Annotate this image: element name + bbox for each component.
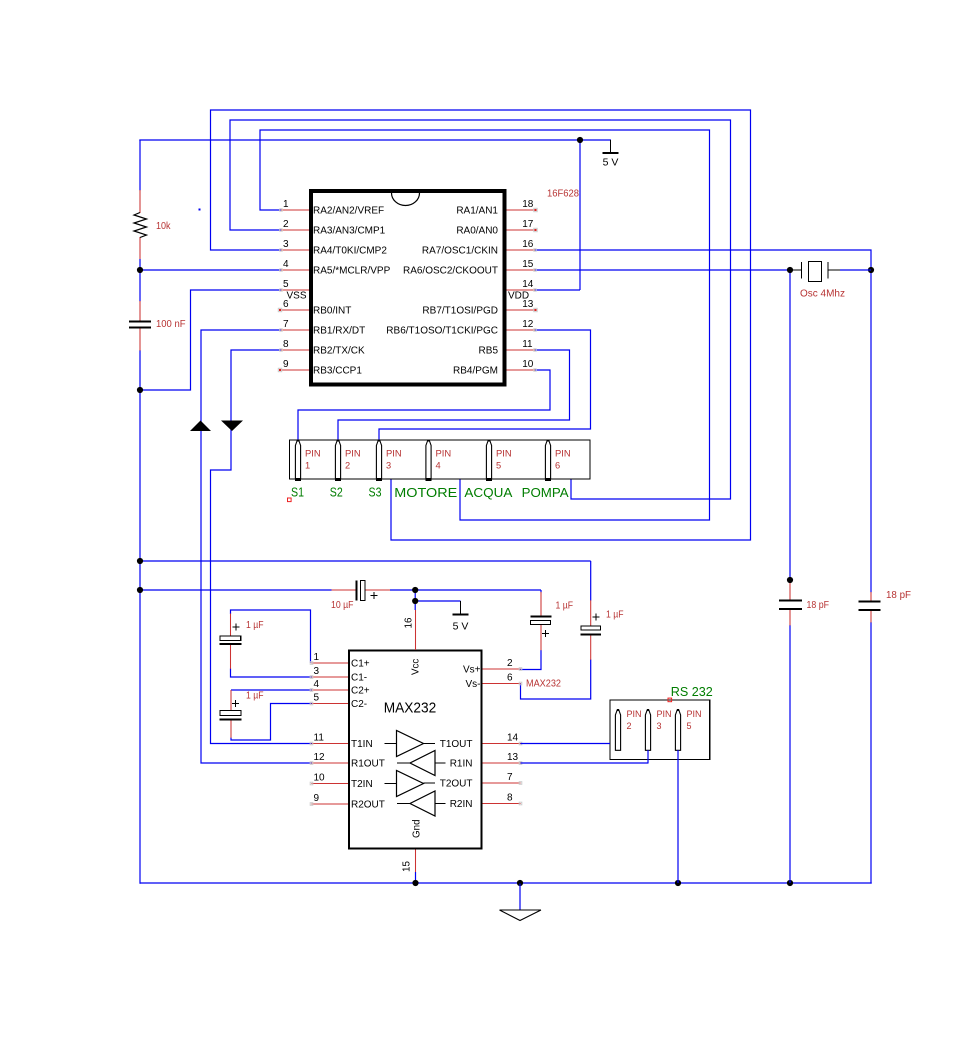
- svg-text:PIN: PIN: [436, 449, 452, 459]
- svg-text:T2IN: T2IN: [351, 779, 373, 790]
- wire net S3: PIC pin12 RB6 to connector pin3: [379, 330, 591, 441]
- svg-text:PIN: PIN: [386, 449, 402, 459]
- svg-text:RA4/T0KI/CMP2: RA4/T0KI/CMP2: [313, 246, 387, 257]
- svg-text:1: 1: [314, 652, 320, 663]
- U1 pin name RB7/T1OSI/PGD: [422, 306, 498, 317]
- U1 stub connection markers: [280, 209, 536, 371]
- U1 pin number 13: [522, 299, 534, 310]
- value label 1 uF (C8): [606, 610, 624, 621]
- svg-text:1: 1: [283, 199, 289, 210]
- U2 pin 8 stub: [483, 803, 521, 805]
- U2 pin name C2+: [351, 686, 370, 697]
- value label 1 uF (C7): [556, 601, 574, 612]
- wire net GND bottom rail: [140, 882, 872, 884]
- U2 pin number 5: [314, 693, 320, 704]
- svg-text:RB0/INT: RB0/INT: [313, 306, 351, 317]
- U2 pin name Vcc: [411, 659, 422, 675]
- wire net GND: branch y=561 to C8: [139, 561, 590, 601]
- junction GND rail at (790,883): [787, 880, 793, 886]
- svg-text:1 µF: 1 µF: [246, 691, 264, 702]
- U1 pin number 14: [522, 279, 534, 290]
- J2 pin 3 symbol: [645, 709, 650, 750]
- U2 pin 5 stub: [312, 703, 349, 705]
- svg-text:10 µF: 10 µF: [331, 600, 354, 611]
- wire net C1-: C5 bottom to MAX232 pin3: [231, 669, 312, 678]
- svg-text:PIN: PIN: [555, 449, 571, 459]
- wire net RX: PIC pin7 RB1/RX to MAX232 pin12 R1OUT: [201, 330, 312, 763]
- value label 18 pF (C2): [807, 600, 830, 611]
- J1 pin 3 symbol: [376, 440, 382, 480]
- U2 pin 7 stub: [483, 782, 521, 784]
- wire net C1+: MAX232 pin1 to C5 top: [231, 610, 311, 663]
- U1 pin number 2: [283, 219, 289, 230]
- U2 pin number 12: [314, 752, 326, 763]
- svg-text:14: 14: [522, 279, 534, 290]
- connector J1 box: [290, 440, 591, 479]
- wire net RA4-MOTORE (PIC pin3 to connector): [211, 110, 751, 540]
- U2 pin 16 Vcc stub: [415, 610, 417, 650]
- U2 pin name C1-: [351, 673, 367, 684]
- wire net RA2-ACQUA (PIC pin1 to connector): [260, 130, 710, 520]
- value label 10k: [156, 221, 171, 232]
- value label 1 uF (C5): [246, 620, 264, 631]
- U2 pin 6 stub: [483, 683, 521, 685]
- J1 pin 4 label: [436, 449, 452, 471]
- U2 pin number 4: [314, 679, 320, 690]
- junction OSC1 at (871,270): [868, 267, 874, 273]
- svg-text:6: 6: [507, 673, 513, 684]
- U1 pin 11 stub: [507, 349, 536, 351]
- stray blue dot: [199, 209, 201, 211]
- U1 pin 14 stub: [507, 289, 536, 291]
- C5 plus sign: [233, 624, 240, 631]
- wire net T1OUT: MAX232 pin14 to RS232 pin2: [521, 743, 611, 745]
- svg-text:1 µF: 1 µF: [606, 610, 624, 621]
- U2 pin 11 stub: [312, 743, 349, 745]
- wire net S1: PIC pin10 RB4 to connector pin1: [298, 370, 550, 441]
- capacitor C1 100nF: [129, 301, 151, 351]
- U1 pin name RA6/OSC2/CKOOUT: [403, 266, 498, 277]
- wire net C2+: MAX232 pin4 to C6 top: [231, 689, 312, 691]
- U1 pin number 3: [283, 239, 289, 250]
- U1 pin 13 stub: [507, 309, 536, 311]
- svg-text:5 V: 5 V: [603, 157, 619, 169]
- svg-text:RS 232: RS 232: [671, 685, 713, 699]
- svg-text:17: 17: [522, 219, 534, 230]
- wire 5V top rail y=140 with VDD branch: [139, 139, 611, 290]
- U1 pin name RB2/TX/CK: [313, 346, 365, 357]
- wire net GND: branch y=590 to C4 10uF: [139, 589, 331, 591]
- svg-text:10k: 10k: [156, 221, 171, 232]
- svg-text:12: 12: [522, 319, 534, 330]
- C7 plus sign: [542, 630, 549, 637]
- svg-text:15: 15: [522, 259, 534, 270]
- svg-text:8: 8: [283, 339, 289, 350]
- U1 pin name VDD: [508, 291, 529, 302]
- U1 pin 3 stub: [281, 249, 309, 251]
- U1 pin number 11: [522, 339, 533, 350]
- J2 pin 2 symbol: [615, 709, 620, 750]
- svg-text:RB4/PGM: RB4/PGM: [453, 366, 498, 377]
- wire net C2-: C6 bottom to MAX232 pin5: [231, 704, 312, 741]
- junction VCC at (415,601): [412, 598, 418, 604]
- U1 pin number 6: [283, 299, 289, 310]
- junction GND at (140,561): [137, 558, 143, 564]
- capacitor C4 10uF: [332, 581, 391, 601]
- svg-text:5: 5: [283, 279, 289, 290]
- U1 pin 7 stub: [281, 329, 309, 331]
- svg-text:7: 7: [283, 319, 289, 330]
- net label ACQUA: [464, 486, 513, 500]
- U2 pin name T1OUT: [440, 739, 473, 750]
- svg-text:RA1/AN1: RA1/AN1: [456, 206, 498, 217]
- U1 pin number 10: [522, 359, 534, 370]
- svg-text:9: 9: [314, 793, 320, 804]
- U1 pin number 15: [522, 259, 534, 270]
- svg-text:POMPA: POMPA: [522, 486, 570, 500]
- U2 pin name T2IN: [351, 779, 373, 790]
- svg-text:C1-: C1-: [351, 673, 367, 684]
- wire net VCC: C4 to 5V symbol and MAX232 Vcc pin16: [390, 590, 541, 610]
- svg-text:MAX232: MAX232: [526, 679, 561, 690]
- U1 pin name VSS: [286, 291, 306, 302]
- junction VCC at (415,590): [412, 587, 418, 593]
- svg-text:2: 2: [507, 658, 513, 669]
- svg-text:Osc 4Mhz: Osc 4Mhz: [800, 289, 845, 300]
- svg-text:RA5/*MCLR/VPP: RA5/*MCLR/VPP: [313, 266, 391, 277]
- U1 pin name RB4/PGM: [453, 366, 498, 377]
- U2 pin number 11: [314, 733, 325, 744]
- arrow symbol down (on TX wire): [221, 421, 243, 432]
- U1 pin name RA4/T0KI/CMP2: [313, 246, 387, 257]
- capacitor C8 1uF: [581, 600, 602, 660]
- arrow symbol up (on RX wire): [190, 421, 211, 432]
- svg-text:16F628: 16F628: [547, 189, 579, 200]
- U1 pin 12 stub: [507, 329, 536, 331]
- U1 pin number 16: [522, 239, 534, 250]
- svg-text:PIN: PIN: [657, 709, 672, 719]
- svg-text:18 pF: 18 pF: [886, 590, 911, 601]
- U1 pin name RB6/T1OSO/T1CKI/PGC: [386, 326, 498, 337]
- U1 pin number 17: [522, 219, 534, 230]
- U1 pin 9 stub: [281, 369, 309, 371]
- U2 pin number 1: [314, 652, 320, 663]
- U2 pin number 6: [507, 673, 513, 684]
- capacitor C3 18pF: [859, 592, 881, 623]
- svg-text:1 µF: 1 µF: [556, 601, 574, 612]
- svg-text:RA3/AN3/CMP1: RA3/AN3/CMP1: [313, 226, 386, 237]
- U2 pin 12 stub: [312, 762, 349, 764]
- capacitor C5 1uF: [220, 614, 242, 669]
- U2 pin 15 Gnd stub: [415, 850, 417, 873]
- svg-text:8: 8: [507, 793, 513, 804]
- svg-text:6: 6: [555, 461, 560, 471]
- U2 pin name Gnd: [412, 819, 423, 838]
- net label POMPA: [522, 486, 570, 500]
- U1 pin number 18: [522, 199, 534, 210]
- U2 pin 1 stub: [312, 662, 349, 664]
- U1 pin name RA7/OSC1/CKIN: [422, 246, 498, 257]
- wire net GND: C2 18pF bottom to rail: [789, 625, 791, 883]
- wire net OSC2: PIC pin15 to crystal left node: [535, 270, 790, 580]
- svg-text:9: 9: [283, 359, 289, 370]
- U1 pin 1 stub: [281, 209, 309, 211]
- svg-text:Gnd: Gnd: [412, 819, 423, 838]
- svg-text:5: 5: [687, 721, 692, 731]
- U2 pin name R1IN: [450, 759, 473, 770]
- svg-text:2: 2: [627, 721, 632, 731]
- U1 pin name RA1/AN1: [456, 206, 498, 217]
- wire net TX: PIC pin8 RB2/TX to MAX232 pin11 T1IN: [211, 350, 312, 744]
- U1 pin 17 stub: [507, 229, 536, 231]
- wire net MCLR: resistor/cap junction to RA5 pin4: [140, 259, 281, 302]
- U2 title MAX232: [384, 700, 437, 717]
- IC U2 MAX232 body: [349, 651, 482, 849]
- U1 pin 5 stub: [281, 289, 309, 291]
- U2 pin name R1OUT: [351, 759, 385, 770]
- capacitor C2 18pF: [779, 583, 802, 626]
- capacitor C6 1uF: [220, 690, 242, 738]
- label 5 V (MAX232): [453, 621, 469, 633]
- J1 pin 5 label: [496, 449, 512, 471]
- svg-text:3: 3: [386, 461, 391, 471]
- svg-text:RB2/TX/CK: RB2/TX/CK: [313, 346, 365, 357]
- junction 5V rail at (580,140): [577, 137, 583, 143]
- svg-text:S1: S1: [291, 486, 304, 500]
- U1 pin 8 stub: [281, 349, 309, 351]
- ground symbol: [500, 884, 542, 921]
- U2 pin 10 stub: [312, 783, 349, 785]
- svg-text:5: 5: [314, 693, 320, 704]
- U1 pin name RA2/AN2/VREF: [313, 206, 384, 217]
- svg-text:T2OUT: T2OUT: [440, 779, 473, 790]
- U2 pin number 16: [404, 617, 415, 628]
- svg-text:Vcc: Vcc: [411, 659, 422, 675]
- svg-text:T1IN: T1IN: [351, 739, 373, 750]
- U2 buffer R1: [397, 751, 446, 776]
- U1 pin name RB1/RX/DT: [313, 326, 365, 337]
- junction GND rail at (520,883): [517, 880, 523, 886]
- svg-text:MOTORE: MOTORE: [394, 486, 457, 500]
- svg-text:18 pF: 18 pF: [807, 600, 830, 611]
- J2 pin 2 label: [627, 709, 642, 731]
- U1 pin name RB3/CCP1: [313, 366, 362, 377]
- junction GND rail at (415,883): [412, 880, 418, 886]
- svg-text:RB6/T1OSO/T1CKI/PGC: RB6/T1OSO/T1CKI/PGC: [386, 326, 498, 337]
- svg-text:11: 11: [314, 733, 325, 744]
- svg-text:2: 2: [345, 461, 350, 471]
- svg-text:ACQUA: ACQUA: [464, 486, 513, 500]
- C8 plus sign: [593, 614, 600, 621]
- svg-text:T1OUT: T1OUT: [440, 739, 473, 750]
- U2 pin name Vs+: [463, 665, 481, 676]
- junction GND rail at (679,883): [675, 880, 681, 886]
- U2 pin 3 stub: [312, 676, 349, 678]
- U1 pin 2 stub: [281, 229, 309, 231]
- junction GND at (140,390): [137, 387, 143, 393]
- U2 pin number 2: [507, 658, 513, 669]
- U1 pin 16 stub: [507, 249, 536, 251]
- U2 pin 14 stub: [483, 743, 521, 745]
- U1 pin name RA0/AN0: [456, 226, 498, 237]
- U2 pin 9 stub: [312, 803, 349, 805]
- svg-text:12: 12: [314, 752, 326, 763]
- U2 pin number 8: [507, 793, 513, 804]
- connector J2 RS232 box: [610, 700, 710, 760]
- J1 pin 5 symbol: [486, 440, 492, 480]
- U2 buffer T1: [385, 731, 436, 757]
- junction OSC2/C2 at (790,580): [787, 577, 793, 583]
- wire net GND: left rail x=140 and VSS branch: [140, 290, 281, 884]
- svg-text:S3: S3: [369, 486, 382, 500]
- U1 pin 15 stub: [507, 269, 536, 271]
- wire net OSC1: PIC pin16 to crystal right node: [535, 250, 871, 593]
- value label 18 pF (C3): [886, 590, 911, 601]
- U1 pin number 7: [283, 319, 289, 330]
- U1 pin name RA3/AN3/CMP1: [313, 226, 386, 237]
- svg-text:C2-: C2-: [351, 699, 367, 710]
- J1 pin 2 symbol: [335, 440, 341, 480]
- J1 pin 6 symbol: [545, 440, 551, 480]
- power symbol 5V (MAX232): [453, 601, 469, 615]
- IC U1 PIC 16F628 body: [311, 191, 505, 385]
- U1 pin 4 stub: [281, 269, 309, 271]
- value label 1 uF (C6): [246, 691, 264, 702]
- svg-text:100 nF: 100 nF: [156, 319, 186, 330]
- net label S3: [369, 486, 382, 500]
- U2 pin 2 stub: [483, 668, 521, 670]
- svg-text:R2OUT: R2OUT: [351, 800, 385, 811]
- svg-text:MAX232: MAX232: [384, 700, 437, 717]
- wire net VS-: MAX232 pin6 to C8 bottom: [521, 660, 591, 700]
- label 5 V (top): [603, 157, 619, 169]
- U1 pin number 8: [283, 339, 289, 350]
- U2 buffer T2: [385, 771, 436, 797]
- svg-text:Vs-: Vs-: [466, 679, 481, 690]
- svg-text:RA2/AN2/VREF: RA2/AN2/VREF: [313, 206, 384, 217]
- svg-text:3: 3: [283, 239, 289, 250]
- U1 pin 6 stub: [281, 309, 309, 311]
- net label MOTORE: [394, 486, 457, 500]
- U2 pin name R2OUT: [351, 800, 385, 811]
- svg-text:RB3/CCP1: RB3/CCP1: [313, 366, 362, 377]
- svg-text:16: 16: [522, 239, 534, 250]
- U2 pin 13 stub: [483, 762, 521, 764]
- U2 stub connection markers: [310, 662, 522, 806]
- value label MAX232 (red): [526, 679, 561, 690]
- svg-text:16: 16: [404, 617, 415, 628]
- svg-text:RA7/OSC1/CKIN: RA7/OSC1/CKIN: [422, 246, 498, 257]
- J1 pin 2 label: [345, 449, 361, 471]
- svg-text:RA0/AN0: RA0/AN0: [456, 226, 498, 237]
- wire net RA3-POMPA (PIC pin2 to connector): [230, 120, 731, 499]
- U2 pin name T1IN: [351, 739, 373, 750]
- svg-text:1 µF: 1 µF: [246, 620, 264, 631]
- svg-text:4: 4: [283, 259, 289, 270]
- svg-text:S2: S2: [330, 486, 343, 500]
- wire net S2: PIC pin11 RB5 to connector pin2: [338, 350, 570, 441]
- svg-text:1: 1: [305, 461, 310, 471]
- U1 pin 10 stub: [507, 369, 536, 371]
- resistor R1 10k: [134, 190, 147, 259]
- svg-text:R1IN: R1IN: [450, 759, 473, 770]
- power symbol 5V (top): [603, 140, 619, 153]
- svg-text:PIN: PIN: [627, 709, 642, 719]
- U1 pin number 4: [283, 259, 289, 270]
- svg-text:VSS: VSS: [286, 291, 306, 302]
- U1 pin name RB0/INT: [313, 306, 351, 317]
- junction GND at (140,590): [137, 587, 143, 593]
- J2 pin 5 label: [687, 709, 702, 731]
- svg-text:15: 15: [402, 861, 413, 872]
- svg-text:3: 3: [657, 721, 662, 731]
- svg-text:RA6/OSC2/CKOOUT: RA6/OSC2/CKOOUT: [403, 266, 498, 277]
- svg-text:PIN: PIN: [496, 449, 512, 459]
- J2 red anchor marker: [668, 698, 672, 702]
- U2 pin number 13: [507, 752, 519, 763]
- U2 pin name T2OUT: [440, 779, 473, 790]
- junction MCLR at (140,270): [137, 267, 143, 273]
- U2 pin number 3: [314, 666, 320, 677]
- J1 pin 4 symbol: [425, 440, 431, 480]
- svg-text:5 V: 5 V: [453, 621, 469, 633]
- junction OSC2 at (790,270): [787, 267, 793, 273]
- svg-text:4: 4: [436, 461, 441, 471]
- wire net R1IN: MAX232 pin13 to RS232 pin3: [521, 750, 649, 763]
- svg-text:RB7/T1OSI/PGD: RB7/T1OSI/PGD: [422, 306, 498, 317]
- U1 pin number 9: [283, 359, 289, 370]
- U1 pin number 5: [283, 279, 289, 290]
- svg-text:2: 2: [283, 219, 289, 230]
- net label S2: [330, 486, 343, 500]
- J1 pin 6 label: [555, 449, 571, 471]
- C4 plus sign: [371, 592, 378, 599]
- U2 pin number 10: [314, 773, 326, 784]
- U2 pin 4 stub: [312, 689, 349, 691]
- svg-text:RB5: RB5: [479, 346, 499, 357]
- svg-text:PIN: PIN: [345, 449, 361, 459]
- J1 red anchor marker: [288, 498, 292, 502]
- J2 pin 5 symbol: [675, 709, 680, 750]
- wire net GND: C3 18pF bottom to rail / rail right end: [870, 622, 872, 884]
- svg-text:R2IN: R2IN: [450, 799, 473, 810]
- J1 pin 3 label: [386, 449, 402, 471]
- C6 plus sign: [232, 700, 239, 707]
- U2 pin number 9: [314, 793, 320, 804]
- svg-text:R1OUT: R1OUT: [351, 759, 385, 770]
- value label 10 uF: [331, 600, 354, 611]
- J1 pin 1 symbol: [295, 440, 301, 480]
- wire net VS+: C7 bottom to MAX232 pin2: [519, 650, 541, 670]
- U2 buffer R2: [397, 791, 446, 816]
- U1 pin name RA5/*MCLR/VPP: [313, 266, 391, 277]
- U2 pin number 14: [507, 733, 519, 744]
- U1 pin number 12: [522, 319, 534, 330]
- net label RS 232: [671, 685, 713, 699]
- svg-text:VDD: VDD: [508, 291, 529, 302]
- J1 pin 1 label: [305, 449, 321, 471]
- capacitor C7 1uF: [531, 592, 552, 650]
- svg-text:11: 11: [522, 339, 533, 350]
- net label S1: [291, 486, 304, 500]
- crystal XT1 Osc 4MHz: [790, 262, 871, 282]
- svg-text:13: 13: [507, 752, 519, 763]
- value label 100 nF: [156, 319, 186, 330]
- svg-text:Vs+: Vs+: [463, 665, 481, 676]
- svg-text:3: 3: [314, 666, 320, 677]
- svg-text:4: 4: [314, 679, 320, 690]
- U1 pin name RB5: [479, 346, 499, 357]
